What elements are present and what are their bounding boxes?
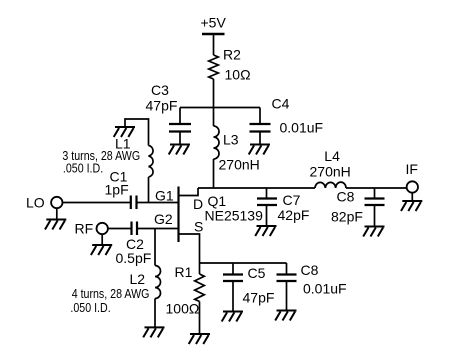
wire C4 to ground [259, 132, 261, 145]
wire L2 to ground [154, 299, 156, 328]
svg-text:0.5pF: 0.5pF [116, 250, 152, 266]
svg-text:RF: RF [75, 220, 94, 236]
svg-text:0.01uF: 0.01uF [280, 119, 324, 135]
value 47pF (C5) [243, 290, 275, 306]
svg-text:C4: C4 [272, 96, 290, 112]
svg-text:.050 I.D.: .050 I.D. [63, 160, 103, 175]
svg-text:1pF: 1pF [105, 181, 129, 197]
svg-text:4 turns, 28 AWG: 4 turns, 28 AWG [72, 286, 150, 301]
svg-text:G2: G2 [154, 211, 173, 227]
svg-text:270nH: 270nH [310, 164, 351, 180]
wire +5V to R2 [213, 34, 215, 55]
label IF [406, 161, 418, 177]
svg-text:C7: C7 [283, 192, 301, 208]
svg-text:47pF: 47pF [146, 97, 178, 113]
wire C8 to ground (IF side) [374, 205, 376, 227]
wire drain node left segment [198, 187, 315, 189]
wire source node to R1 [199, 263, 201, 274]
wire drain node to C7 [266, 188, 268, 199]
wire node to C3 [179, 108, 181, 125]
label C3 [151, 82, 169, 98]
note .050 I.D. (L1) [63, 160, 103, 175]
inductor L1 [149, 146, 154, 178]
svg-text:L3: L3 [223, 132, 239, 148]
svg-text:R1: R1 [175, 264, 193, 280]
svg-text:0.01uF: 0.01uF [303, 281, 347, 297]
value 10Ω [225, 67, 251, 83]
wire L3 to drain node [213, 159, 215, 188]
label C7 [283, 192, 301, 208]
svg-text:82pF: 82pF [331, 208, 363, 224]
node label G2 [154, 211, 173, 227]
ground R1 [189, 334, 210, 344]
svg-text:L4: L4 [324, 148, 340, 164]
svg-text:IF: IF [406, 161, 418, 177]
ground C7 [255, 226, 276, 236]
wire drain node right segment [346, 187, 407, 189]
wire R1 to ground [199, 302, 201, 335]
wire L2 tap down from G2 wire [154, 229, 156, 266]
wire node to C4 [259, 108, 261, 125]
svg-text:G1: G1 [155, 187, 174, 203]
capacitor C7 [257, 199, 277, 206]
svg-text:C8: C8 [301, 262, 319, 278]
label L1 [115, 136, 131, 152]
ground C3 [169, 145, 190, 155]
value 0.5pF (C2) [116, 250, 152, 266]
ground L2 [143, 327, 164, 337]
pin label S [194, 219, 203, 235]
wire RF to C2 [108, 228, 132, 230]
svg-text:C3: C3 [151, 82, 169, 98]
svg-text:+5V: +5V [201, 15, 227, 31]
port LO [51, 197, 62, 208]
capacitor C5 [223, 275, 243, 282]
ground C8 (IF side) [363, 227, 384, 237]
wire source node to C5 [232, 263, 234, 275]
port IF [407, 181, 418, 192]
svg-text:47pF: 47pF [243, 290, 275, 306]
node label G1 [155, 187, 174, 203]
wire C8 to ground (source bypass) [286, 281, 288, 311]
svg-text:R2: R2 [223, 47, 241, 63]
svg-text:270nH: 270nH [219, 157, 260, 173]
capacitor C1 [131, 196, 137, 210]
inductor L2 [155, 266, 161, 299]
label C2 [126, 236, 144, 252]
svg-text:C5: C5 [248, 265, 266, 281]
wire R2 to top node [213, 79, 215, 108]
label C8 (source bypass) [301, 262, 319, 278]
svg-text:L2: L2 [130, 271, 146, 287]
resistor R1 [195, 274, 205, 302]
wire drain node to C8 (IF side) [374, 188, 376, 199]
wire LO to C1 [63, 202, 131, 204]
value NE25139 [205, 207, 264, 223]
svg-text:.050 I.D.: .050 I.D. [70, 300, 110, 315]
capacitor C8 (IF side) [365, 199, 385, 206]
transistor Q1 source lead [179, 234, 200, 263]
label RF [75, 220, 94, 236]
label C4 [272, 96, 290, 112]
resistor R2 [209, 55, 219, 79]
label Q1 [208, 193, 227, 209]
pin label D [193, 196, 203, 212]
wire RF ground stub [101, 234, 103, 245]
wire IF ground stub [411, 193, 413, 201]
value 100Ω [166, 301, 200, 317]
wire source node horizontal [200, 262, 287, 264]
svg-text:10Ω: 10Ω [225, 67, 251, 83]
wire source node to C8 (source bypass) [286, 263, 288, 275]
ground C4 [249, 145, 270, 155]
svg-text:D: D [193, 196, 203, 212]
note 4 turns, 28 AWG [72, 286, 150, 301]
value 47pF (C3) [146, 97, 178, 113]
label R1 [175, 264, 193, 280]
label R2 [223, 47, 241, 63]
wire C5 to ground [232, 281, 234, 312]
note 3 turns, 28 AWG [62, 148, 140, 163]
ground C8 (source bypass) [275, 311, 296, 321]
+5V supply bar [202, 33, 225, 35]
ground LO [45, 220, 66, 230]
capacitor C8 (source bypass) [277, 275, 297, 282]
wire top node horizontal [180, 107, 260, 109]
ground C5 [222, 312, 243, 322]
value 0.01uF (C4) [280, 119, 324, 135]
wire LO ground stub [56, 208, 58, 219]
label L2 [130, 271, 146, 287]
svg-text:C8: C8 [337, 189, 355, 205]
port RF [97, 223, 108, 234]
inductor L4 [315, 182, 346, 188]
label LO [26, 194, 45, 210]
capacitor C4 [250, 124, 271, 132]
value 270nH (L3) [219, 157, 260, 173]
value 42pF (C7) [278, 207, 310, 223]
wire node to L3 [213, 108, 215, 127]
svg-text:LO: LO [26, 194, 45, 210]
label C1 [110, 169, 128, 185]
capacitor C2 [132, 222, 138, 236]
label L4 [324, 148, 340, 164]
label C8 (IF side) [337, 189, 355, 205]
wire C7 to ground [266, 205, 268, 226]
transistor Q1 gate bar [177, 187, 179, 243]
ground IF [401, 201, 422, 211]
value 270nH (L4) [310, 164, 351, 180]
wire L1 tap up from G1 wire [148, 177, 150, 203]
wire L1 top to ground arm [125, 119, 149, 146]
wire C2 to gate G2 [137, 228, 179, 230]
ground RF [91, 245, 112, 255]
+5V supply label [201, 15, 227, 31]
label C5 [248, 265, 266, 281]
value 1pF (C1) [105, 181, 129, 197]
label L3 [223, 132, 239, 148]
inductor L3 [214, 126, 220, 159]
svg-text:NE25139: NE25139 [205, 207, 264, 223]
note .050 I.D. (L2) [70, 300, 110, 315]
svg-text:100Ω: 100Ω [166, 301, 200, 317]
ground L1 [114, 127, 135, 137]
transistor Q1 drain lead [179, 188, 199, 196]
wire C3 to ground [179, 132, 181, 145]
svg-text:S: S [194, 219, 203, 235]
value 0.01uF (source bypass) [303, 281, 347, 297]
svg-text:42pF: 42pF [278, 207, 310, 223]
capacitor C3 [169, 124, 191, 132]
value 82pF [331, 208, 363, 224]
wire C1 to gate G1 [137, 202, 179, 204]
